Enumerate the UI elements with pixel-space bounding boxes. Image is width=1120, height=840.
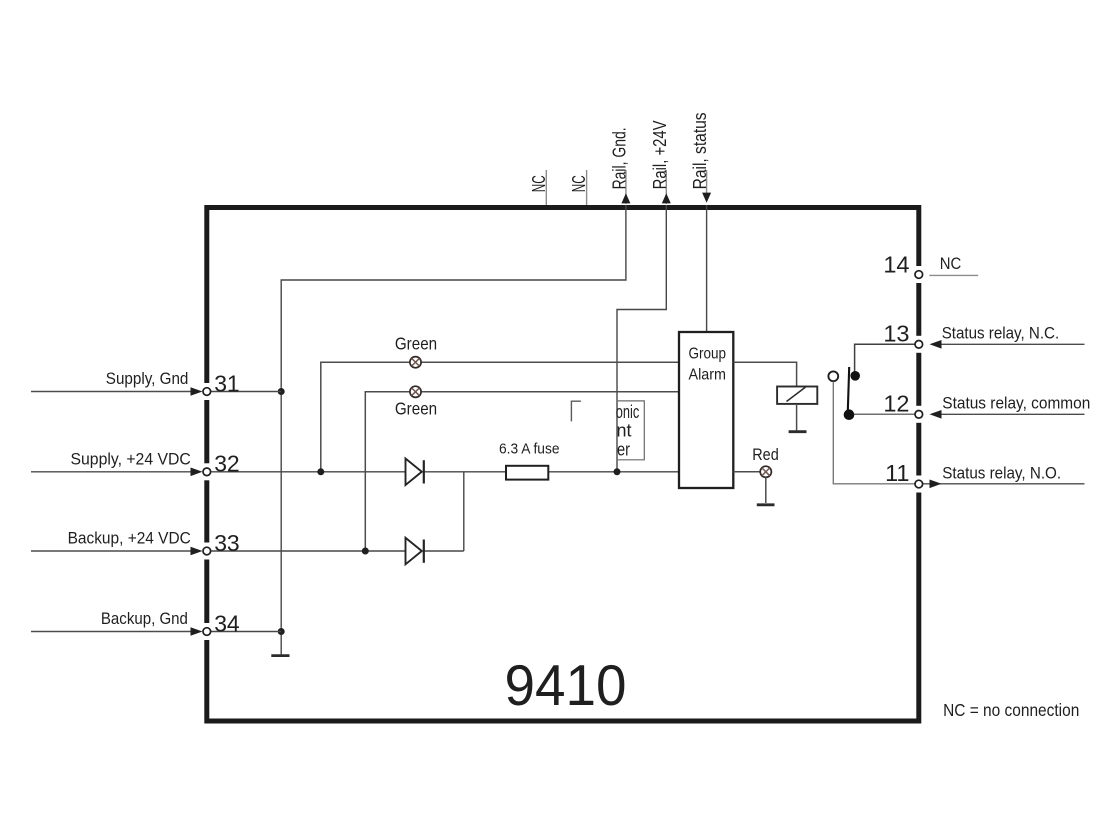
terminal 11 external arrow (out) bbox=[923, 480, 1085, 489]
relay contact NO (open circle) bbox=[828, 371, 838, 381]
wire Group Alarm to red lamp bbox=[733, 471, 766, 473]
terminal 33 external arrow bbox=[31, 547, 203, 556]
terminal circle 13 bbox=[915, 341, 923, 349]
svg-text:11: 11 bbox=[885, 460, 909, 486]
svg-text:Green: Green bbox=[395, 398, 437, 418]
svg-text:Alarm: Alarm bbox=[689, 366, 727, 383]
terminal 31 external arrow bbox=[31, 387, 203, 396]
wire coil to ground bbox=[796, 404, 798, 431]
junction dot at 31 row bbox=[278, 388, 285, 395]
ground symbol below terminal 34 bbox=[271, 654, 289, 657]
junction dot lamp2 branch bbox=[362, 548, 369, 555]
wire gnd bus vertical x281 from y279 to ground bbox=[280, 392, 282, 655]
wire Rail +24V inside: down, left, down to fuse row bbox=[617, 205, 666, 472]
module enclosure box 9410 bbox=[207, 208, 919, 722]
wire Rail Gnd inside: down, left to node at x281 bbox=[281, 205, 626, 392]
wire Rail status inside: down to Group Alarm box bbox=[706, 205, 708, 332]
wire terminal 12 to common contact bbox=[848, 413, 915, 415]
fuse F1 6.3A bbox=[506, 466, 548, 480]
wire terminal 33 row to diode 2 bbox=[209, 550, 406, 552]
junction dot lamp1 branch bbox=[317, 468, 324, 475]
terminal 12 external arrow (in) bbox=[930, 410, 1085, 419]
svg-text:14: 14 bbox=[883, 251, 909, 277]
wire red lamp to ground bbox=[765, 477, 767, 503]
relay lever arm bbox=[848, 367, 850, 415]
ground symbol below coil bbox=[789, 430, 807, 433]
ground symbol below red lamp bbox=[757, 503, 775, 506]
terminal 34 external arrow bbox=[31, 627, 203, 636]
svg-text:Red: Red bbox=[752, 445, 779, 464]
wire diode 2 output to T bbox=[424, 550, 464, 552]
svg-text:onic: onic bbox=[616, 402, 640, 422]
NC stub 1 (top) bbox=[545, 170, 547, 205]
wire lamp2 branch: up from 33 row, right through lamp to Group Alarm bbox=[365, 392, 679, 551]
wire terminal 31 to gnd bus bbox=[209, 391, 281, 393]
Group Alarm box U1 bbox=[679, 332, 733, 488]
svg-text:Backup, Gnd: Backup, Gnd bbox=[101, 609, 188, 628]
junction dot at 34 row bbox=[278, 628, 285, 635]
wire Rail Gnd stub above border bbox=[625, 170, 627, 204]
svg-text:Rail, Gnd.: Rail, Gnd. bbox=[609, 127, 629, 189]
svg-text:Supply, Gnd: Supply, Gnd bbox=[106, 369, 189, 388]
wire Rail +24V stub above border bbox=[665, 170, 667, 204]
relay contact NC (filled dot) bbox=[850, 371, 860, 381]
svg-text:6.3 A fuse: 6.3 A fuse bbox=[499, 442, 560, 458]
svg-text:Rail, +24V: Rail, +24V bbox=[650, 120, 670, 189]
wire NO contact to terminal 11 bbox=[833, 382, 914, 484]
svg-text:Group: Group bbox=[689, 345, 727, 362]
terminal circle 32 bbox=[203, 468, 211, 476]
arrowhead Rail status (down) bbox=[702, 193, 711, 203]
svg-text:9410: 9410 bbox=[505, 654, 627, 718]
terminal circle 33 bbox=[203, 547, 211, 555]
wire terminal 34 to gnd bus bbox=[209, 631, 281, 633]
NC stub 2 (top) bbox=[586, 170, 588, 205]
relay contact common (filled dot) bbox=[844, 409, 855, 420]
junction dot fuse row at x617 bbox=[614, 468, 621, 475]
terminal gaps in border bbox=[203, 383, 210, 400]
lamp Green 1 bbox=[410, 357, 421, 368]
wire Rail status stub above border bbox=[706, 170, 708, 193]
electronic current limiter box fragment: top-left corner bracket bbox=[571, 401, 581, 421]
svg-text:Status relay, N.C.: Status relay, N.C. bbox=[942, 323, 1059, 342]
terminal circle 11 bbox=[915, 480, 923, 488]
diode D2 (backup) bbox=[406, 538, 424, 565]
svg-text:13: 13 bbox=[883, 320, 909, 346]
relay coil K1 bbox=[777, 387, 817, 404]
svg-text:Supply, +24 VDC: Supply, +24 VDC bbox=[71, 450, 191, 469]
diode D1 (supply) bbox=[406, 459, 424, 486]
lamp Green 2 bbox=[410, 386, 421, 397]
arrowhead Rail Gnd (up) bbox=[621, 193, 630, 203]
svg-text:NC: NC bbox=[569, 175, 589, 192]
svg-text:Green: Green bbox=[395, 334, 437, 354]
wire terminal 32 row: to diode, T, fuse, to Group Alarm bbox=[209, 471, 406, 473]
wire T drop from 32 row down to 33 row bbox=[463, 472, 465, 551]
svg-text:Backup, +24 VDC: Backup, +24 VDC bbox=[68, 529, 191, 548]
svg-text:er: er bbox=[617, 440, 630, 460]
terminal 14 NC stub bbox=[929, 274, 978, 276]
terminal circle 31 bbox=[203, 388, 211, 396]
wire terminal 13 to NC contact bbox=[855, 344, 915, 376]
wire lamp1 branch: up from 32 row, right through lamp to Group Alarm bbox=[321, 362, 679, 472]
svg-text:NC: NC bbox=[940, 254, 962, 273]
electronic current limiter box fragment: right part bbox=[616, 401, 645, 460]
svg-text:Status relay, N.O.: Status relay, N.O. bbox=[942, 463, 1061, 482]
svg-text:31: 31 bbox=[214, 370, 240, 396]
terminal circle 12 bbox=[915, 411, 923, 419]
svg-text:Rail, status: Rail, status bbox=[690, 112, 710, 189]
terminal 13 external arrow (in) bbox=[930, 340, 1085, 349]
svg-text:33: 33 bbox=[214, 530, 240, 556]
lamp Red bbox=[760, 466, 771, 477]
arrowhead Rail +24V (up) bbox=[662, 193, 671, 203]
terminal 32 external arrow bbox=[31, 468, 203, 477]
terminal circle 14 bbox=[915, 271, 923, 279]
svg-text:32: 32 bbox=[214, 451, 240, 477]
svg-text:34: 34 bbox=[214, 610, 240, 636]
svg-text:Status relay, common: Status relay, common bbox=[942, 393, 1090, 412]
wire Group Alarm to relay coil bbox=[733, 362, 796, 386]
svg-text:nt: nt bbox=[617, 420, 632, 440]
svg-text:NC = no connection: NC = no connection bbox=[943, 700, 1079, 720]
svg-text:12: 12 bbox=[883, 390, 909, 416]
terminal circle 34 bbox=[203, 628, 211, 636]
svg-text:NC: NC bbox=[529, 175, 549, 192]
